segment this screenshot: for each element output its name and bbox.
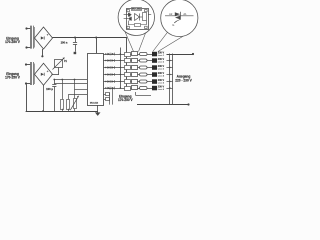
channel 2 load label bbox=[158, 58, 165, 64]
triac T6 bbox=[152, 86, 157, 91]
channel 1 wire bbox=[104, 54, 153, 56]
diode D1b bbox=[112, 53, 115, 56]
resistor R13 bbox=[104, 93, 110, 96]
channel 5 load label bbox=[158, 79, 165, 85]
node: channel 5 crossings bbox=[120, 81, 127, 82]
node: channel 6 crossings bbox=[120, 87, 127, 88]
callout lines to circle 1 bbox=[125, 31, 146, 52]
input label "Eingang 170-250 V" (bottom-left) bbox=[5, 72, 21, 80]
diode D3b bbox=[112, 66, 115, 69]
channel 4 wire bbox=[104, 74, 153, 76]
triac symbol bbox=[165, 12, 194, 20]
svg-text:170-250 V: 170-250 V bbox=[5, 40, 21, 44]
optocoupler OK1 bbox=[132, 52, 138, 56]
wire: bottom rail to output terminal bbox=[137, 103, 190, 105]
channel 1 wire to output terminal bbox=[167, 53, 195, 55]
node: channel 3 pin bbox=[105, 67, 106, 68]
svg-text:170-250 V: 170-250 V bbox=[118, 98, 134, 102]
triac T4 bbox=[152, 72, 157, 77]
detail circle 2 (triac) bbox=[161, 0, 198, 37]
channel 5 wire to bus bbox=[167, 81, 173, 82]
wire: B1 minus drop bbox=[41, 49, 43, 57]
triac T5 bbox=[152, 79, 157, 84]
mains connector bars (input 2) bbox=[31, 62, 35, 85]
wire: DC rail from B1 bbox=[53, 38, 127, 89]
channel 1 load label bbox=[158, 52, 165, 58]
svg-text:Last 5: Last 5 bbox=[158, 82, 165, 85]
potentiometer P1 bbox=[52, 58, 68, 75]
svg-text:Last 3: Last 3 bbox=[158, 68, 165, 71]
channel 6 load label bbox=[158, 86, 165, 92]
node: cap junction bbox=[74, 37, 76, 39]
svg-text:+: + bbox=[47, 33, 49, 37]
node: channel 5 pin bbox=[105, 81, 106, 82]
opto detector bbox=[135, 14, 143, 21]
resistor R12 bbox=[67, 94, 88, 111]
gate resistor inside opto bbox=[128, 21, 147, 27]
capacitor C2 100 µ bbox=[46, 80, 56, 111]
optocoupler OK5 bbox=[132, 80, 138, 84]
svg-text:MC1413: MC1413 bbox=[90, 102, 99, 105]
resistor R3a bbox=[125, 66, 131, 70]
terminal (input 1, L) bbox=[25, 27, 30, 29]
wire: output bus pair bbox=[170, 54, 173, 105]
svg-text:Last 2: Last 2 bbox=[158, 61, 165, 64]
optocoupler OK3 bbox=[132, 66, 138, 70]
channel 4 wire to bus bbox=[167, 74, 173, 75]
wire: B2 minus drop bbox=[42, 85, 44, 111]
svg-text:A2: A2 bbox=[169, 12, 173, 16]
wire: input2 N loop to ground rail bbox=[26, 85, 98, 112]
triac T2 bbox=[152, 58, 157, 63]
svg-text:MOC3041: MOC3041 bbox=[132, 8, 142, 11]
optocoupler OK6 bbox=[132, 86, 138, 90]
diode D3a bbox=[107, 66, 110, 69]
channel 3 load label bbox=[158, 65, 165, 71]
svg-text:220 - 230 V: 220 - 230 V bbox=[175, 78, 192, 82]
IC U1 driver bbox=[88, 54, 104, 106]
svg-text:+: + bbox=[47, 69, 49, 73]
channel 6 wire bbox=[104, 88, 153, 90]
resistor R5a bbox=[125, 80, 131, 84]
diode D2a bbox=[107, 59, 110, 62]
resistor R1a bbox=[125, 53, 131, 57]
channel 3 wire bbox=[104, 67, 153, 69]
wire: rail drop to IC bbox=[95, 37, 97, 54]
mains connector bars (input 1) bbox=[31, 26, 35, 49]
svg-text:Last 1: Last 1 bbox=[158, 54, 165, 57]
diode D6a bbox=[107, 87, 110, 90]
channel 3 wire to bus bbox=[167, 67, 173, 68]
resistor R1b bbox=[140, 53, 148, 56]
resistor inside opto bbox=[143, 13, 147, 21]
potentiometer P2 bbox=[70, 80, 87, 111]
wire: cap feed line bbox=[54, 83, 87, 85]
channel 2 wire to bus bbox=[167, 60, 173, 61]
resistor R6b bbox=[140, 87, 148, 90]
triac T3 bbox=[152, 65, 157, 70]
terminal (input 2, N) bbox=[25, 82, 31, 84]
optocoupler OK2 bbox=[132, 59, 138, 63]
triac gate G bbox=[172, 20, 180, 28]
resistor R2b bbox=[140, 59, 148, 62]
type label MOC3041 bbox=[132, 8, 143, 11]
diode D6b bbox=[112, 87, 115, 90]
detail circle 1 (optocoupler) bbox=[118, 0, 154, 36]
resistor R2a bbox=[125, 59, 131, 63]
channel 6 wire to bus bbox=[167, 87, 173, 88]
node: channel 6 pin bbox=[105, 87, 106, 88]
optocoupler OK4 bbox=[132, 73, 138, 77]
wire: Vcc feed line bbox=[53, 79, 87, 81]
diode D5a bbox=[107, 80, 110, 83]
ground (IC) bbox=[95, 105, 101, 116]
node: channel 4 pin bbox=[105, 74, 106, 75]
node: channel 4 crossings bbox=[120, 74, 127, 75]
bridge rectifier B1 bbox=[35, 27, 53, 49]
channel 5 wire bbox=[104, 81, 153, 83]
terminal (input 1, N) bbox=[25, 46, 30, 48]
diode D4b bbox=[112, 73, 115, 76]
resistor R11 bbox=[61, 80, 64, 111]
wire: sync links bbox=[109, 93, 111, 105]
diode D5b bbox=[112, 80, 115, 83]
resistor R4b bbox=[140, 73, 148, 76]
opto package outline bbox=[127, 9, 149, 30]
wire: sync feed from channel 6 bbox=[109, 88, 113, 105]
diode D1a bbox=[107, 53, 110, 56]
channel 4 load label bbox=[158, 72, 165, 78]
resistor R3b bbox=[140, 66, 148, 69]
node: channel 3 crossings bbox=[120, 67, 127, 68]
output label "Ausgang 220 - 230 V" bbox=[175, 74, 192, 82]
triac T1 bbox=[152, 52, 157, 57]
node: channel 2 crossings bbox=[120, 60, 127, 61]
svg-text:100 µ: 100 µ bbox=[46, 87, 53, 91]
wire: neutral stub bbox=[136, 92, 152, 96]
terminal (input 2, L) bbox=[25, 63, 31, 65]
resistor R5b bbox=[140, 80, 148, 83]
input label "Eingang 170-250 V" (bottom-mid) bbox=[118, 94, 134, 102]
diode D4a bbox=[107, 73, 110, 76]
node: channel 2 pin bbox=[105, 60, 106, 61]
callout lines to circle 2 bbox=[153, 30, 193, 51]
diode D2b bbox=[112, 59, 115, 62]
node: channel 1 crossings bbox=[120, 53, 127, 54]
svg-text:A1: A1 bbox=[183, 12, 187, 16]
input label "Eingang 170-250 V" (top) bbox=[5, 36, 21, 44]
wire: gate bus vertical bbox=[120, 48, 122, 89]
svg-text:Last 4: Last 4 bbox=[158, 75, 165, 78]
svg-text:G: G bbox=[172, 23, 174, 27]
resistor R6a bbox=[125, 87, 131, 91]
node: channel 1 pin bbox=[105, 53, 106, 54]
svg-text:170-250 V: 170-250 V bbox=[5, 76, 21, 80]
bridge rectifier B2 bbox=[35, 63, 53, 85]
resistor R14 bbox=[104, 98, 110, 101]
capacitor C1 100 n bbox=[61, 38, 78, 55]
svg-text:100 n: 100 n bbox=[61, 41, 68, 45]
svg-text:Last 6: Last 6 bbox=[158, 88, 165, 91]
opto LED pair bbox=[124, 13, 132, 21]
channel 2 wire bbox=[104, 60, 153, 62]
resistor R4a bbox=[125, 73, 131, 77]
opto right pin stub bbox=[148, 14, 151, 16]
pin pads bbox=[127, 9, 147, 28]
